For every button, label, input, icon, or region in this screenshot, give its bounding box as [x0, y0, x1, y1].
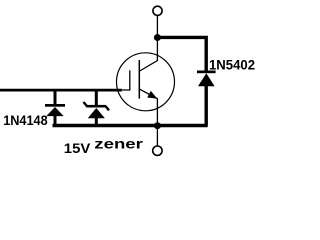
wire bottom horizontal — [53, 124, 208, 127]
transistor Q1 collector — [140, 38, 158, 72]
terminal bottom — [153, 146, 162, 155]
node junction top — [154, 34, 161, 41]
svg-text:1N5402: 1N5402 — [209, 56, 255, 72]
diode Z1 zener 15V — [84, 91, 110, 126]
svg-text:zener: zener — [94, 136, 143, 152]
wire gate left rail — [0, 89, 122, 92]
diode D1 1N4148 — [45, 91, 65, 126]
svg-text:15V: 15V — [64, 140, 91, 156]
node junction bottom — [154, 122, 161, 129]
wire top terminal to junction — [156, 15, 158, 38]
svg-text:1N4148: 1N4148 — [3, 112, 48, 128]
terminal top — [153, 6, 162, 15]
transistor Q1 IGBT circle — [117, 53, 175, 111]
transistor Q1 body bar — [138, 60, 140, 99]
wire bottom junction to terminal — [156, 126, 158, 146]
transistor Q1 emitter — [140, 89, 158, 124]
diode D2 1N5402 — [197, 71, 216, 126]
transistor Q1 emitter arrow — [147, 91, 157, 99]
wire top horizontal to right branch — [157, 37, 206, 71]
transistor Q1 gate electrode — [122, 70, 130, 90]
